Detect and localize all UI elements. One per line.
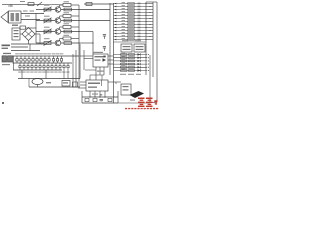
wire AC input N bbox=[11, 44, 40, 51]
wire bus x76 bbox=[75, 50, 77, 87]
connector column left rail bbox=[109, 3, 111, 75]
capacitor C19 bbox=[48, 56, 50, 63]
wire rail link 4 bbox=[146, 12, 153, 13]
label R12 bbox=[64, 1, 70, 2]
wire collector row 3 bbox=[60, 27, 79, 29]
resistor R37 bbox=[43, 63, 45, 70]
meter P1 oval bbox=[32, 79, 43, 85]
motor M body box bbox=[9, 11, 22, 23]
resistor R38 bbox=[47, 63, 49, 70]
resistor R33 bbox=[64, 30, 72, 33]
label above U1 bbox=[93, 52, 103, 53]
label R18 bbox=[122, 22, 126, 25]
wire rung 3 bbox=[114, 9, 147, 11]
resistor R23 bbox=[121, 60, 128, 62]
resistor R44 bbox=[73, 82, 78, 87]
capacitor C1 bbox=[20, 26, 36, 29]
resistor R113 bbox=[128, 39, 135, 41]
resistor R42 bbox=[93, 98, 97, 101]
node B vertical wire bbox=[78, 31, 93, 54]
wire y103 to right bbox=[118, 102, 150, 104]
capacitor C112 bbox=[60, 56, 62, 63]
resistor R12 bbox=[63, 4, 71, 7]
resistor R36 bbox=[39, 63, 41, 70]
labels above relays bbox=[122, 40, 141, 41]
wire drop x29 bbox=[28, 79, 30, 88]
resistor R24b bbox=[129, 63, 135, 65]
resistor R21 bbox=[121, 54, 128, 56]
wire rail link 12 bbox=[146, 36, 153, 37]
wire drop x46 bbox=[45, 70, 47, 79]
wire motor output lower bbox=[21, 19, 40, 21]
label R14 bbox=[122, 10, 126, 13]
wire collector row 1 bbox=[60, 5, 79, 7]
wire rung 1 bbox=[114, 3, 147, 5]
wire rung 11 bbox=[114, 33, 147, 35]
label R24 bbox=[122, 61, 126, 64]
pin arrow 3 bbox=[115, 9, 117, 11]
wire rail link 1 bbox=[145, 3, 153, 4]
transformer T1 core bbox=[2, 56, 13, 62]
pin arrow 8 bbox=[115, 24, 117, 26]
right rail outer bbox=[156, 2, 158, 102]
resistor R13 bbox=[64, 8, 72, 11]
connector column right rail bbox=[113, 3, 115, 103]
wire base row 1 bbox=[36, 9, 55, 11]
label R32 bbox=[64, 23, 70, 24]
pin arrow 5 bbox=[115, 15, 117, 17]
diode VD5 bbox=[138, 66, 141, 68]
resistor R22 bbox=[121, 57, 128, 59]
label R111 bbox=[122, 31, 126, 34]
label R21 bbox=[44, 16, 50, 17]
pin arrow 4 bbox=[115, 12, 117, 14]
label R11 bbox=[122, 1, 126, 4]
indicator LED10 bbox=[138, 30, 141, 32]
wire lower rung 5 bbox=[114, 67, 149, 68]
wire AC input mid bbox=[11, 46, 28, 48]
IC U1 arrow bbox=[103, 58, 107, 62]
wire bus y103 bbox=[82, 102, 118, 104]
resistor R31 bbox=[44, 29, 52, 34]
resistor R12 bbox=[128, 6, 135, 8]
diode VD3 bbox=[138, 60, 141, 62]
wire U1 pin right 3 bbox=[108, 63, 114, 65]
transistor Q4 bbox=[55, 40, 61, 46]
indicator LED12 bbox=[138, 36, 141, 38]
wire lower rung 1 bbox=[114, 54, 149, 55]
indicator LED1 bbox=[138, 3, 141, 4]
wire bus y70 bbox=[13, 69, 62, 71]
pin arrow 12 bbox=[115, 36, 117, 38]
labels above bus y56 bbox=[15, 52, 63, 55]
wire U1 pin left 1 bbox=[80, 55, 93, 57]
switch S1 on top rail bbox=[37, 2, 42, 6]
wire rung 12 bbox=[114, 36, 147, 38]
resistor R34 bbox=[31, 63, 33, 70]
resistor R21 bbox=[44, 18, 52, 23]
resistor R33 bbox=[27, 63, 29, 70]
wire U1 pin bottom 2 bbox=[99, 67, 101, 75]
indicator LED3 bbox=[138, 9, 141, 11]
resistor R112 bbox=[128, 36, 135, 38]
resistor R35 bbox=[35, 63, 37, 70]
resistor R32 bbox=[23, 63, 25, 70]
wire rung 8 bbox=[114, 24, 147, 26]
capacitor C15 bbox=[32, 56, 34, 63]
wire U3 top bbox=[108, 82, 121, 84]
label R31 bbox=[44, 27, 50, 28]
junction mark near U1 bbox=[103, 56, 105, 58]
wire rail link 8 bbox=[146, 24, 153, 25]
label R13 bbox=[122, 7, 126, 10]
capacitor C18 bbox=[44, 56, 46, 63]
IC U2 box bbox=[86, 80, 108, 91]
wire collector row 4 bbox=[60, 39, 79, 41]
label 220V bbox=[2, 45, 11, 50]
pin arrow 11 bbox=[115, 33, 117, 35]
pin arrow 7 bbox=[115, 21, 117, 23]
wire lower rung 6 bbox=[114, 70, 149, 71]
resistor R16 bbox=[128, 18, 135, 20]
U2 inner divider bbox=[101, 80, 103, 86]
relay K1 box bbox=[12, 28, 20, 40]
wire top supply rail bbox=[2, 3, 63, 6]
resistor R26 bbox=[121, 70, 128, 72]
resistor R13 bbox=[128, 9, 135, 11]
wire rail link 13 bbox=[145, 39, 153, 40]
wire rung 7 bbox=[114, 21, 147, 23]
transistor Q1 bbox=[55, 7, 61, 13]
resistor R26b bbox=[129, 70, 135, 72]
wire U1 pin right 2 bbox=[108, 59, 114, 61]
wire row3 to node B bbox=[79, 31, 93, 33]
capacitor C3 mid bbox=[103, 47, 106, 52]
label R112 bbox=[122, 34, 126, 37]
resistor R312 bbox=[63, 63, 65, 70]
resistor R110 bbox=[128, 30, 135, 32]
label R113 bbox=[122, 37, 126, 40]
indicator LED11 bbox=[138, 33, 141, 35]
wire rail link 3 bbox=[145, 9, 153, 10]
label R41 bbox=[44, 38, 50, 39]
wire U2 pin bottom 2 bbox=[94, 91, 96, 97]
transistor Q2 bbox=[55, 18, 61, 24]
resistor R311 bbox=[59, 63, 61, 70]
label R16 bbox=[122, 16, 126, 19]
wire rail link 9 bbox=[145, 27, 153, 28]
resistor R11 bbox=[44, 7, 52, 12]
wire bus x73 bbox=[72, 54, 74, 87]
relay K2 box bbox=[121, 44, 132, 52]
label R19 bbox=[122, 25, 126, 28]
wire row2 to rail bbox=[79, 20, 110, 22]
wire rung 10 bbox=[114, 30, 147, 32]
label R21 bbox=[122, 52, 126, 55]
wire rail link 6 bbox=[146, 18, 153, 19]
wire bus x80 bbox=[79, 44, 81, 79]
resistor R41 bbox=[85, 98, 89, 101]
label M1 under motor bbox=[12, 25, 18, 26]
wire oval down bbox=[37, 85, 39, 88]
wire base row 4 bbox=[36, 42, 55, 44]
wire U2 pin bottom 3 bbox=[99, 91, 101, 97]
resistor R24 bbox=[121, 63, 128, 65]
label R22 bbox=[64, 12, 70, 13]
wire lower rung 3 bbox=[114, 60, 149, 61]
label T1 bbox=[3, 53, 11, 54]
label between U2 and bus bbox=[92, 94, 98, 95]
wire drop x22 bbox=[21, 70, 23, 79]
resistor R40 bbox=[62, 81, 70, 87]
indicator LED8 bbox=[138, 24, 141, 26]
wire U1 pin bottom 3 bbox=[103, 67, 105, 75]
plus mark C20 bbox=[100, 94, 102, 95]
diode VD6 bbox=[138, 69, 141, 71]
label R22 bbox=[122, 55, 126, 58]
resistor R39 bbox=[51, 63, 53, 70]
indicator LED4 bbox=[138, 12, 141, 14]
label R15 bbox=[122, 13, 126, 16]
resistor R42 bbox=[63, 37, 71, 40]
wire rail link 2 bbox=[146, 6, 153, 7]
wire row4 down bbox=[78, 42, 93, 43]
wire U1 pin bottom 1 bbox=[95, 67, 97, 79]
wire U2 pin left 2 bbox=[80, 84, 86, 86]
resistor R25b bbox=[129, 66, 135, 68]
wire U2 pin left 1 bbox=[80, 81, 86, 83]
wire U1 pin right 1 bbox=[108, 55, 114, 57]
wire lower rung 4 bbox=[114, 64, 149, 65]
right rail mid bbox=[152, 2, 154, 77]
right rail inner bbox=[145, 2, 147, 75]
wire right edge x118 bbox=[117, 91, 119, 103]
IC U1 box bbox=[93, 54, 108, 67]
capacitor C17 bbox=[40, 56, 42, 63]
label R23 bbox=[122, 58, 126, 61]
wire above relay boxes bbox=[114, 41, 147, 43]
indicator LED2 bbox=[138, 6, 141, 8]
diode VD4 bbox=[138, 63, 141, 65]
label R110 bbox=[122, 28, 126, 31]
resistor R313 bbox=[67, 63, 69, 70]
fuse F1 on top rail bbox=[28, 3, 34, 6]
wire x150 vertical bbox=[149, 55, 151, 103]
label R25 bbox=[122, 65, 126, 68]
capacitor C2 mid bbox=[103, 35, 106, 40]
wire emitter row 1 bbox=[61, 9, 79, 11]
transistor Q3 bbox=[55, 29, 61, 35]
label R42 bbox=[64, 35, 70, 36]
capacitor C14 bbox=[28, 56, 30, 63]
pin arrow 1 bbox=[115, 3, 117, 5]
wire rail link 11 bbox=[145, 33, 153, 34]
capacitor C111 bbox=[56, 56, 58, 63]
label row under lower ladder bbox=[120, 74, 141, 75]
wire bus right of rows bbox=[78, 5, 80, 44]
resistor R21b bbox=[129, 54, 135, 56]
wire rung 5 bbox=[114, 15, 147, 17]
wire rail link 7 bbox=[145, 21, 153, 22]
wire bus left of rows bbox=[35, 14, 37, 44]
wire link y75 bbox=[90, 74, 104, 76]
wire x150 to x157 bbox=[150, 102, 157, 104]
resistor R11 bbox=[128, 3, 135, 5]
capacitor C20 bbox=[100, 99, 104, 100]
wire bus y56 bbox=[13, 55, 80, 57]
resistor R111 bbox=[128, 33, 135, 35]
watermark small mark bbox=[154, 100, 157, 104]
resistor R43 bbox=[108, 98, 112, 101]
pin arrow 9 bbox=[115, 27, 117, 29]
resistor R41 bbox=[44, 40, 52, 45]
resistor R23b bbox=[129, 60, 135, 62]
resistor R23 bbox=[64, 19, 72, 22]
wire emitter row 2 bbox=[61, 20, 79, 22]
wire lower rung 2 bbox=[114, 57, 149, 58]
wire rung 9 bbox=[114, 27, 147, 29]
wire bus y78 bbox=[18, 78, 80, 80]
label R11 bbox=[44, 5, 50, 6]
capacitor C13 bbox=[24, 56, 26, 63]
capacitor C16 bbox=[36, 56, 38, 63]
resistor R25 bbox=[121, 66, 128, 68]
dot bottom left bbox=[2, 102, 4, 104]
label near U1 bbox=[97, 71, 104, 72]
wire base row 2 bbox=[36, 20, 55, 22]
resistor R17 bbox=[128, 21, 135, 23]
wire bus y97 bbox=[82, 96, 118, 98]
tap on top rail bbox=[8, 4, 13, 7]
wire emitter row 4 bbox=[61, 42, 79, 44]
resistor R310 bbox=[55, 63, 57, 70]
wire drop x64 bbox=[63, 70, 65, 79]
wire top right link bbox=[146, 1, 157, 3]
wire motor output upper bbox=[21, 13, 44, 15]
wire rung 6 bbox=[114, 18, 147, 20]
wire U2 pin top 2 bbox=[95, 79, 97, 81]
pin arrow 2 bbox=[115, 6, 117, 8]
resistor R15 bbox=[128, 15, 135, 17]
transformer T2 dark blob bbox=[130, 91, 145, 98]
diode VD2 bbox=[138, 57, 141, 59]
label in bottom rect bbox=[46, 82, 51, 83]
indicator LED7 bbox=[138, 21, 141, 23]
wire bus y63 bbox=[13, 62, 73, 64]
wire left edge x82 bbox=[81, 91, 83, 103]
wire emitter row 3 bbox=[61, 31, 79, 33]
capacitor C11 bbox=[16, 56, 18, 63]
bridge rectifier VD1 bbox=[22, 28, 35, 41]
wire bus x84 bbox=[83, 50, 85, 70]
pin arrow 6 bbox=[115, 18, 117, 20]
pin arrow 10 bbox=[115, 30, 117, 32]
wire rung 2 bbox=[114, 6, 147, 8]
watermark char 2 bbox=[146, 98, 153, 108]
indicator LED6 bbox=[138, 18, 141, 20]
resistor R31 bbox=[19, 63, 21, 70]
resistor R19 bbox=[128, 27, 135, 29]
wire U2 pin bottom 1 bbox=[89, 91, 91, 97]
label R17 bbox=[122, 19, 126, 22]
indicator LED13 bbox=[138, 39, 141, 41]
capacitor C12 bbox=[20, 56, 22, 63]
label above fuse bbox=[20, 1, 25, 2]
wire bridge to bus bbox=[20, 34, 40, 44]
wire row1 to rail bbox=[79, 9, 110, 11]
wire U2 pin left 3 bbox=[78, 87, 86, 89]
pin arrow 13 bbox=[115, 39, 117, 41]
wire drop x68 bbox=[67, 70, 69, 79]
wire mid top rail bbox=[84, 3, 114, 5]
capacitor C110 bbox=[52, 56, 54, 63]
wire U1 pin left 2 bbox=[84, 58, 93, 60]
label R26 bbox=[122, 68, 126, 71]
resistor R5 on mid rail bbox=[86, 3, 92, 6]
wire rail link 5 bbox=[145, 15, 153, 16]
watermark char 1 bbox=[138, 98, 145, 108]
wire U2 pin top 1 bbox=[89, 75, 91, 80]
wire rung 4 bbox=[114, 12, 147, 14]
resistor R32 bbox=[63, 26, 71, 29]
label R12 bbox=[122, 4, 126, 7]
wire collector row 2 bbox=[60, 16, 79, 18]
regulator U3 box bbox=[121, 84, 131, 95]
indicator LED5 bbox=[138, 15, 141, 17]
indicator LED9 bbox=[138, 27, 141, 29]
resistor R22 bbox=[63, 15, 71, 18]
label under T2 bbox=[130, 100, 135, 101]
wire bus x79 bbox=[78, 44, 80, 87]
wire U2 pin bottom 4 bbox=[104, 91, 106, 97]
resistor R14 bbox=[128, 12, 135, 14]
labels below bus y70 bbox=[18, 71, 69, 74]
wire base row 3 bbox=[36, 31, 55, 33]
watermark url text bbox=[125, 108, 158, 109]
wire rung 13 bbox=[114, 39, 147, 41]
resistor R18 bbox=[128, 24, 135, 26]
resistor R43 bbox=[64, 42, 72, 45]
label above motor wires bbox=[23, 11, 34, 17]
relay K3 box bbox=[134, 44, 145, 52]
wire AC input L bbox=[11, 43, 44, 45]
wire rail link 10 bbox=[146, 30, 153, 31]
wire under U1 bbox=[85, 69, 96, 71]
wire bus left join bbox=[13, 56, 15, 70]
resistor R22b bbox=[129, 57, 135, 59]
motor M horn symbol bbox=[1, 12, 8, 23]
diode VD1 bbox=[138, 53, 141, 55]
wire bottom loop bbox=[29, 86, 80, 88]
label under T1 bbox=[2, 64, 10, 65]
wire U2 pin top 3 bbox=[101, 75, 103, 80]
junction dots bus y97 bbox=[89, 96, 105, 97]
